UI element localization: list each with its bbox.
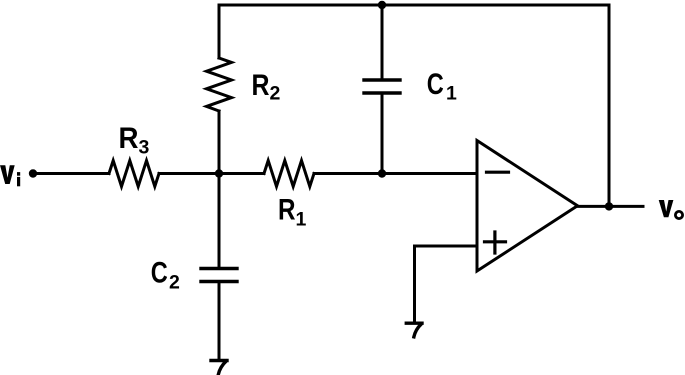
svg-text:1: 1	[446, 83, 457, 105]
node A junction dot	[215, 169, 223, 177]
wire op-amp non-inverting input	[415, 245, 478, 248]
op-amp U1	[477, 141, 578, 272]
ground below C2	[211, 361, 227, 375]
svg-text:2: 2	[169, 272, 180, 294]
svg-text:1: 1	[296, 209, 307, 231]
node output junction dot	[605, 202, 613, 210]
label vi	[0, 165, 20, 186]
svg-text:C: C	[151, 257, 168, 290]
svg-text:R: R	[252, 69, 270, 102]
op-amp minus sign	[487, 171, 509, 174]
capacitor C2	[201, 269, 237, 282]
node input terminal dot	[29, 169, 37, 177]
wire input from vi to R3	[36, 172, 109, 175]
svg-text:R: R	[119, 122, 139, 155]
resistor R1	[264, 161, 314, 187]
label vo	[659, 200, 683, 219]
wire non-inverting to ground	[413, 246, 416, 322]
node top junction dot	[378, 1, 386, 9]
resistor R2	[207, 58, 232, 111]
svg-text:C: C	[427, 68, 444, 101]
wire node B to op-amp inverting input	[382, 172, 477, 175]
resistor R3	[109, 161, 159, 187]
wire right vertical feedback	[608, 5, 611, 206]
wire node A to R1	[219, 172, 264, 175]
node B junction dot	[378, 169, 386, 177]
wire C1 bottom lead	[381, 93, 384, 174]
wire R2 bottom lead	[218, 111, 221, 174]
wire R1 to node B	[314, 172, 382, 175]
wire op-amp output	[578, 205, 644, 208]
op-amp plus sign	[485, 232, 506, 253]
wire R2 top lead	[218, 5, 221, 58]
svg-text:3: 3	[139, 137, 150, 159]
wire C2 top lead	[218, 174, 221, 269]
capacitor C1	[364, 80, 400, 93]
svg-text:R: R	[278, 194, 296, 227]
wire top horizontal	[219, 4, 609, 7]
wire R3 to node A	[159, 172, 219, 175]
ground at op-amp plus input	[406, 323, 422, 337]
wire C1 top lead	[381, 5, 384, 80]
wire C2 bottom lead	[218, 282, 221, 360]
svg-text:2: 2	[270, 83, 281, 105]
